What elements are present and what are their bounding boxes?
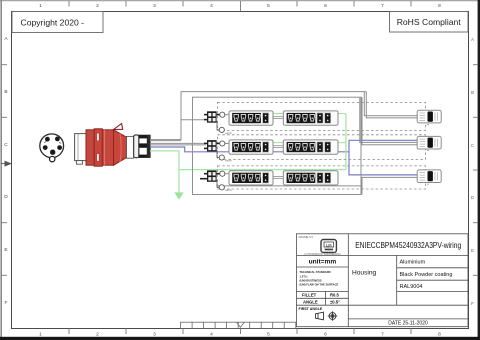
svg-text:FILLET: FILLET	[302, 293, 317, 298]
svg-text:ANGLE: ANGLE	[303, 300, 318, 305]
svg-text:8: 8	[438, 3, 441, 9]
handle triangle	[113, 124, 122, 130]
left ruler ticks	[1, 65, 7, 276]
earth arrow (PE down)	[174, 192, 183, 199]
svg-text:C: C	[4, 142, 8, 148]
outlet strip S3 (bank 2 left)	[229, 140, 273, 154]
PDU enclosure outline	[193, 97, 362, 194]
connector P1 CEE 5-pin plug front view	[40, 134, 64, 162]
svg-text:ENIECCBPM45240932A3PV-wiring: ENIECCBPM45240932A3PV-wiring	[355, 241, 461, 250]
svg-text:5: 5	[267, 332, 270, 338]
wire PE earth (green)	[150, 114, 346, 193]
projection symbol circle	[328, 311, 338, 321]
connector P1 side view red cone	[113, 124, 126, 166]
svg-text:FIRST ANGLE: FIRST ANGLE	[299, 307, 323, 311]
connector P1 side view rear body	[75, 134, 95, 165]
svg-text:B: B	[471, 90, 474, 95]
connector P1 side view red housing and clamp band	[86, 129, 114, 166]
svg-text:earth: earth	[225, 131, 232, 135]
technical standard text	[300, 270, 339, 286]
left centering arrow	[1, 161, 12, 167]
top ruler ticks	[69, 1, 411, 12]
wire PE stubs rows 1-2	[268, 114, 346, 143]
outlet strip S2 (bank 1 right)	[283, 111, 338, 125]
svg-text:D: D	[471, 195, 474, 200]
svg-text:3: 3	[153, 332, 156, 338]
logo	[321, 240, 336, 253]
node A2 junction	[220, 141, 229, 146]
svg-text:Black Powder coating: Black Powder coating	[400, 272, 453, 278]
svg-text:Lɪɦ: Lɪɦ	[326, 243, 332, 247]
pin L2	[55, 137, 60, 142]
wire feed to terminal X1	[181, 119, 206, 121]
svg-text:A: A	[471, 37, 474, 42]
sheet outer border left	[0, 0, 2, 340]
wire L1 from plug to top bus	[150, 92, 366, 141]
svg-text:2: 2	[96, 3, 99, 9]
svg-text:F: F	[5, 300, 8, 306]
copyright box	[12, 12, 103, 33]
svg-text:8: 8	[438, 332, 441, 338]
svg-text:B: B	[4, 89, 7, 95]
svg-text:1: 1	[39, 3, 42, 9]
node E2 earth junction	[219, 155, 232, 163]
svg-text:7: 7	[381, 332, 384, 338]
pin L1	[45, 137, 50, 142]
svg-text:4: 4	[210, 332, 213, 338]
node A3 junction	[220, 171, 229, 176]
svg-text:E: E	[471, 248, 474, 253]
svg-text:4: 4	[210, 3, 213, 9]
dashed group box bank 3	[218, 166, 426, 189]
dashed group box bank 1	[218, 102, 426, 130]
svg-text:6: 6	[324, 332, 327, 338]
svg-text:TECHNICAL STANDARD: TECHNICAL STANDARD	[300, 270, 331, 274]
left ruler letters	[4, 36, 8, 306]
svg-text:earth: earth	[225, 158, 232, 162]
svg-text:(UM) RUSTINESS: (UM) RUSTINESS	[300, 278, 322, 282]
wire pair to inlet J2	[360, 97, 417, 145]
svg-text:7: 7	[381, 3, 384, 9]
svg-text:E: E	[4, 247, 7, 253]
svg-text:(UM) FLAW ON THE SURFACE: (UM) FLAW ON THE SURFACE	[300, 282, 339, 286]
svg-text:2: 2	[96, 332, 99, 338]
terminal block X2	[204, 140, 220, 157]
top ruler numbers	[39, 3, 441, 9]
svg-text:FRAME 1/1: FRAME 1/1	[299, 235, 314, 239]
inlet connector J1	[417, 110, 441, 124]
svg-text:C: C	[471, 143, 474, 148]
RoHS box	[390, 12, 469, 33]
svg-text:Aluminium: Aluminium	[400, 260, 426, 266]
sheet outer border top	[0, 0, 480, 2]
inlet connector J3	[417, 170, 441, 184]
wire stubs between outlet strips	[273, 117, 284, 179]
svg-text:1.2T.U.: 1.2T.U.	[300, 274, 309, 278]
svg-text:1: 1	[39, 332, 42, 338]
right ruler ticks	[473, 65, 478, 276]
terminal block X3	[200, 170, 220, 187]
node E3 earth junction	[219, 185, 232, 193]
sheet outer border right	[478, 0, 480, 340]
outlet strip S4 (bank 2 right)	[283, 140, 338, 154]
svg-text:earth: earth	[225, 188, 232, 192]
pin N	[57, 145, 62, 150]
inlet connector J2	[417, 136, 441, 150]
svg-text:Copyright 2020 -: Copyright 2020 -	[21, 18, 85, 28]
node E1 earth junction	[219, 127, 232, 135]
svg-text:AUTHORIZED BY ENGINEERING: AUTHORIZED BY ENGINEERING	[304, 253, 341, 256]
dashed group box bank 2	[218, 135, 426, 160]
wire pair to inlet J1	[364, 92, 417, 118]
outlet strip S5 (bank 3 left)	[229, 171, 273, 185]
svg-text:D: D	[4, 194, 8, 200]
connector P1 side view collar	[127, 136, 134, 158]
pin L3	[43, 145, 48, 150]
svg-text:3: 3	[153, 3, 156, 9]
projection symbol frustum	[316, 312, 324, 320]
svg-text:RoHS Compliant: RoHS Compliant	[397, 17, 462, 27]
outlet strip S6 (bank 3 right)	[283, 171, 338, 185]
svg-text:unit=mm: unit=mm	[309, 259, 337, 266]
sheet outer border bottom	[0, 337, 480, 340]
bottom centering scale bar	[181, 322, 296, 328]
wire N neutral (blue)	[150, 140, 418, 175]
connector P1 cable gland	[134, 135, 150, 158]
svg-text:5: 5	[267, 3, 270, 9]
svg-text:DATE 25-11-2020: DATE 25-11-2020	[388, 321, 428, 327]
clamp band	[94, 129, 102, 166]
pin PE	[50, 150, 55, 155]
svg-text:6: 6	[324, 3, 327, 9]
wire pair to inlet J3	[217, 177, 418, 194]
node A1 junction	[220, 112, 229, 117]
svg-text:Housing: Housing	[352, 270, 377, 277]
wire feed to terminal X2 (double)	[150, 143, 206, 145]
svg-text:±0.5°: ±0.5°	[330, 300, 340, 305]
outlet strip S1 (bank 1 left)	[229, 111, 273, 125]
bottom ruler ticks	[69, 329, 411, 335]
svg-text:RAL9004: RAL9004	[400, 284, 423, 290]
terminal block X1	[204, 111, 220, 130]
right ruler letters	[471, 37, 474, 306]
svg-text:R0.5: R0.5	[330, 293, 340, 298]
svg-text:F: F	[471, 301, 474, 306]
bottom ruler numbers	[39, 332, 441, 338]
